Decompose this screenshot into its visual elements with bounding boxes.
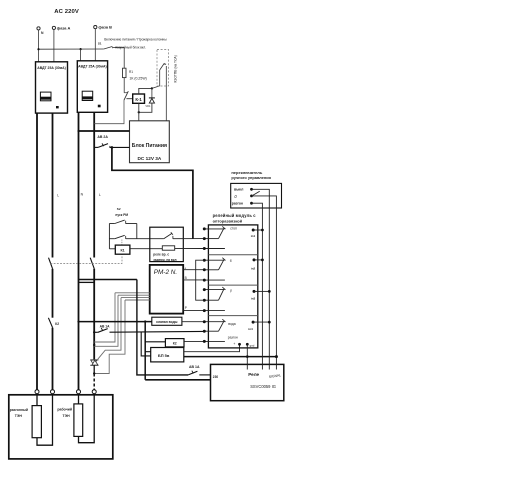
wire phase B drop (94, 29, 96, 62)
svg-text:К1: К1 (120, 249, 124, 253)
time relay box (150, 227, 184, 261)
bundle verticals (94, 293, 115, 342)
wire S2 loop left (108, 224, 110, 249)
node N bus left (37, 48, 39, 50)
svg-text:Включение питания / Прожарка к: Включение питания / Прожарка колонны (104, 38, 167, 42)
opto section 3 (204, 289, 224, 291)
module divider 3 (208, 315, 257, 317)
relay coil K-1 (133, 94, 145, 103)
regulator RM-2 box (150, 265, 184, 314)
PSU box (130, 121, 170, 163)
wire N rail down (K2/BP/relay) (144, 322, 146, 380)
wire K-1 bottom to PSU (138, 103, 140, 121)
wire R1 bottom (123, 78, 125, 93)
module in3 (253, 290, 256, 293)
wire vykl (252, 189, 270, 369)
link row4 to row8 (196, 260, 205, 300)
svg-text:пуск РМ: пуск РМ (115, 213, 128, 217)
selector terminal 0 (250, 195, 253, 198)
wire N bus (39, 48, 104, 50)
svg-text:клапан воды: клапан воды (156, 320, 177, 324)
wire K2 to module (184, 340, 204, 342)
svg-text:разгонный: разгонный (10, 408, 28, 412)
time relay contact (164, 233, 172, 238)
module left terminal dots (203, 227, 206, 343)
svg-text:фаза А: фаза А (57, 25, 71, 30)
svg-text:DC 12V 3А: DC 12V 3А (138, 156, 162, 161)
opto section 4 (204, 321, 224, 323)
wire down from contact (94, 100, 124, 123)
resistor R1 wire top (123, 47, 125, 68)
wires into relay box (246, 364, 248, 369)
contact K1.2 blade (90, 258, 94, 269)
wire phase A drop (53, 30, 55, 62)
svg-text:L: L (99, 193, 101, 197)
svg-text:вода: вода (228, 322, 236, 326)
svg-text:AC 220V: AC 220V (54, 9, 79, 15)
svg-text:Блок Питания: Блок Питания (132, 143, 167, 149)
module divider 2 (208, 284, 257, 286)
svg-text:R1: R1 (129, 70, 133, 74)
node klapan feed (77, 321, 79, 323)
wire gnd rail (184, 356, 277, 358)
node on L2 at gate feed (93, 344, 95, 346)
svg-text:АВ 2А: АВ 2А (97, 135, 108, 139)
wire K-1 coil left lead (126, 98, 132, 100)
terminal circles (35, 390, 39, 394)
breaker QF1 test button (56, 106, 59, 108)
svg-text:Р: Р (185, 306, 187, 310)
svg-text:VD1: VD1 (145, 104, 151, 108)
wire N-L stub (79, 281, 95, 283)
svg-text:опторазвязкой: опторазвязкой (213, 219, 243, 224)
svg-text:РМ-2 N.: РМ-2 N. (154, 269, 177, 276)
relay coil K1 (115, 245, 130, 254)
breaker QF2 box (77, 61, 107, 113)
breaker QF2 toggle (82, 91, 93, 100)
wire thermal contact to PSU (165, 66, 167, 121)
node 12V tap (111, 146, 114, 149)
svg-text:АВДТ 25А (30мА): АВДТ 25А (30мА) (78, 65, 106, 69)
selector blade (253, 191, 260, 195)
node K-1 bottom (138, 111, 140, 113)
svg-text:Аварийный блок вкл.: Аварийный блок вкл. (115, 46, 146, 50)
wire K1 coil left (109, 248, 115, 250)
svg-text:ТЭН: ТЭН (15, 414, 23, 418)
wire S2 loop right (136, 224, 138, 239)
svg-text:S2: S2 (117, 207, 121, 211)
switch S2 top line (109, 223, 114, 225)
svg-text:рабочий: рабочий (57, 407, 72, 411)
svg-text:КЗОТПВ (на ТСА): КЗОТПВ (на ТСА) (173, 55, 177, 82)
svg-text:в: в (164, 62, 166, 66)
svg-text:фаза В: фаза В (98, 25, 112, 30)
wire BP input2 drop (141, 332, 151, 356)
svg-text:БП 5в: БП 5в (158, 353, 170, 358)
svg-text:SSVC0059 IG: SSVC0059 IG (250, 384, 276, 389)
svg-text:К2: К2 (173, 342, 177, 346)
wire K1 coil to resistor (130, 248, 162, 250)
node below triac (93, 372, 95, 374)
breaker QF1 box (36, 62, 68, 113)
thermal cutout contact blade (160, 63, 165, 70)
terminal N (37, 27, 40, 30)
svg-text:стоп: стоп (230, 227, 237, 231)
svg-text:L: L (57, 194, 59, 198)
svg-text:ТЭН: ТЭН (63, 414, 71, 418)
triac VS1 (90, 359, 98, 361)
relay SSVC box (211, 364, 284, 400)
wire N drop to breaker2 (80, 49, 82, 62)
terminal phase B (94, 26, 97, 29)
wire triac to node (93, 365, 95, 373)
heater 1 (razgonny TEN) (36, 394, 38, 406)
svg-text:К-1: К-1 (135, 97, 142, 102)
node K-1 top (151, 87, 153, 89)
svg-text:переключатель: переключатель (231, 170, 262, 175)
node L input (77, 130, 79, 132)
wire L input to PSU (79, 130, 130, 132)
RM-2 left pin wires bundle (115, 292, 150, 294)
wire N1 down (heater1 N) (36, 113, 38, 390)
wire razgon (252, 203, 263, 369)
breaker QF2 test button (98, 105, 101, 108)
svg-text:выкл: выкл (234, 188, 244, 192)
diode VD1 wire top (151, 88, 153, 98)
selector switch box (231, 183, 282, 208)
svg-text:К2: К2 (55, 322, 59, 326)
svg-text:В: В (185, 276, 187, 280)
relay coil K2 (165, 339, 184, 347)
wire L1 down upper part (52, 113, 54, 257)
svg-text:in1: in1 (251, 234, 256, 238)
wire AB1A to module row11 (110, 330, 205, 333)
module gnd terminal (246, 343, 249, 346)
svg-text:+: + (233, 342, 235, 346)
contact K1.1 blade (49, 258, 53, 269)
wire N drop (38, 30, 40, 62)
svg-text:б: б (230, 259, 232, 263)
wire klapan N feed (79, 321, 152, 323)
wire K-1 top link (139, 88, 152, 94)
svg-text:АВ 1А: АВ 1А (189, 365, 200, 369)
wire VD1 bottom (139, 103, 152, 112)
svg-text:S1: S1 (98, 42, 102, 46)
wire to time relay (126, 238, 164, 240)
dashed box thermal cutout (157, 50, 169, 87)
module divider 1 (208, 254, 257, 256)
svg-text:разгон: разгон (232, 202, 243, 206)
wire resistor to module row3 (175, 248, 205, 250)
wire to thermal contact (152, 86, 160, 89)
svg-text:in3: in3 (251, 297, 256, 301)
wire S1 out (113, 46, 125, 48)
svg-text:ручного управления: ручного управления (231, 175, 271, 180)
svg-text:р: р (230, 289, 232, 293)
dashed link to K1 coil (121, 240, 123, 246)
svg-text:Реле: Реле (248, 372, 259, 377)
wire N2 down (78, 112, 80, 389)
contact blade to K-1 (124, 91, 128, 100)
selector terminal razgon (250, 202, 253, 205)
module in4 (252, 321, 255, 324)
svg-text:in4: in4 (248, 327, 253, 331)
valve box klapan vody (152, 317, 182, 325)
terminal phase A (52, 26, 55, 29)
wire L2 down upper (93, 112, 95, 257)
wire N rail to relay box (145, 379, 210, 381)
time relay resistor (162, 246, 174, 250)
selector terminal vykl (250, 188, 253, 191)
dashed wire to heater terminal (93, 374, 95, 390)
svg-text:АВДТ 25А (30мА): АВДТ 25А (30мА) (37, 66, 65, 70)
breaker AB 1A (first) (93, 331, 95, 333)
wire N right run (79, 279, 137, 281)
wire L1 lower part (52, 328, 54, 390)
heater tank box (9, 395, 113, 459)
module in2 (253, 258, 256, 261)
wire N down to relay box (137, 280, 188, 375)
svg-text:1К (0,25W): 1К (0,25W) (129, 76, 146, 80)
diode VD1 (149, 97, 155, 99)
contact K1 self-hold line (109, 238, 114, 240)
wire gnd down (246, 344, 248, 369)
dashed link K1 contacts to K1 coil (51, 255, 123, 264)
wire L1 mid part (52, 269, 54, 318)
wire 12V supply run (112, 147, 193, 238)
svg-text:230: 230 (213, 375, 219, 379)
svg-text:реле вр. с: реле вр. с (153, 253, 169, 257)
breaker QF1 toggle (40, 92, 51, 101)
module in1 (252, 229, 255, 232)
wire klapan to module (182, 321, 204, 323)
relay module box (208, 225, 257, 348)
opto section 2 (204, 259, 224, 261)
wire L2 mid (93, 269, 95, 360)
svg-text:in2: in2 (251, 266, 256, 270)
wire BP +5 to module (184, 344, 240, 351)
heater 2 (rabochiy TEN) (78, 394, 80, 404)
wire BP input1 (145, 351, 151, 353)
wire K2 coil left (145, 341, 165, 343)
node N bus breaker2 (80, 48, 82, 50)
svg-text:gnd: gnd (250, 344, 255, 348)
opto section 1 (204, 228, 224, 230)
svg-text:задерж. на вкл: задерж. на вкл (153, 258, 176, 262)
wire common (252, 196, 277, 370)
svg-text:релейный модуль с: релейный модуль с (213, 213, 257, 218)
svg-text:разгон: разгон (228, 335, 238, 339)
wire contact to module row2 (173, 238, 204, 240)
power supply BP 5v box (151, 348, 184, 362)
contact K2.1 blade (48, 318, 52, 328)
resistor R1 (123, 68, 127, 77)
svg-text:АВ 1А: АВ 1А (100, 324, 111, 328)
